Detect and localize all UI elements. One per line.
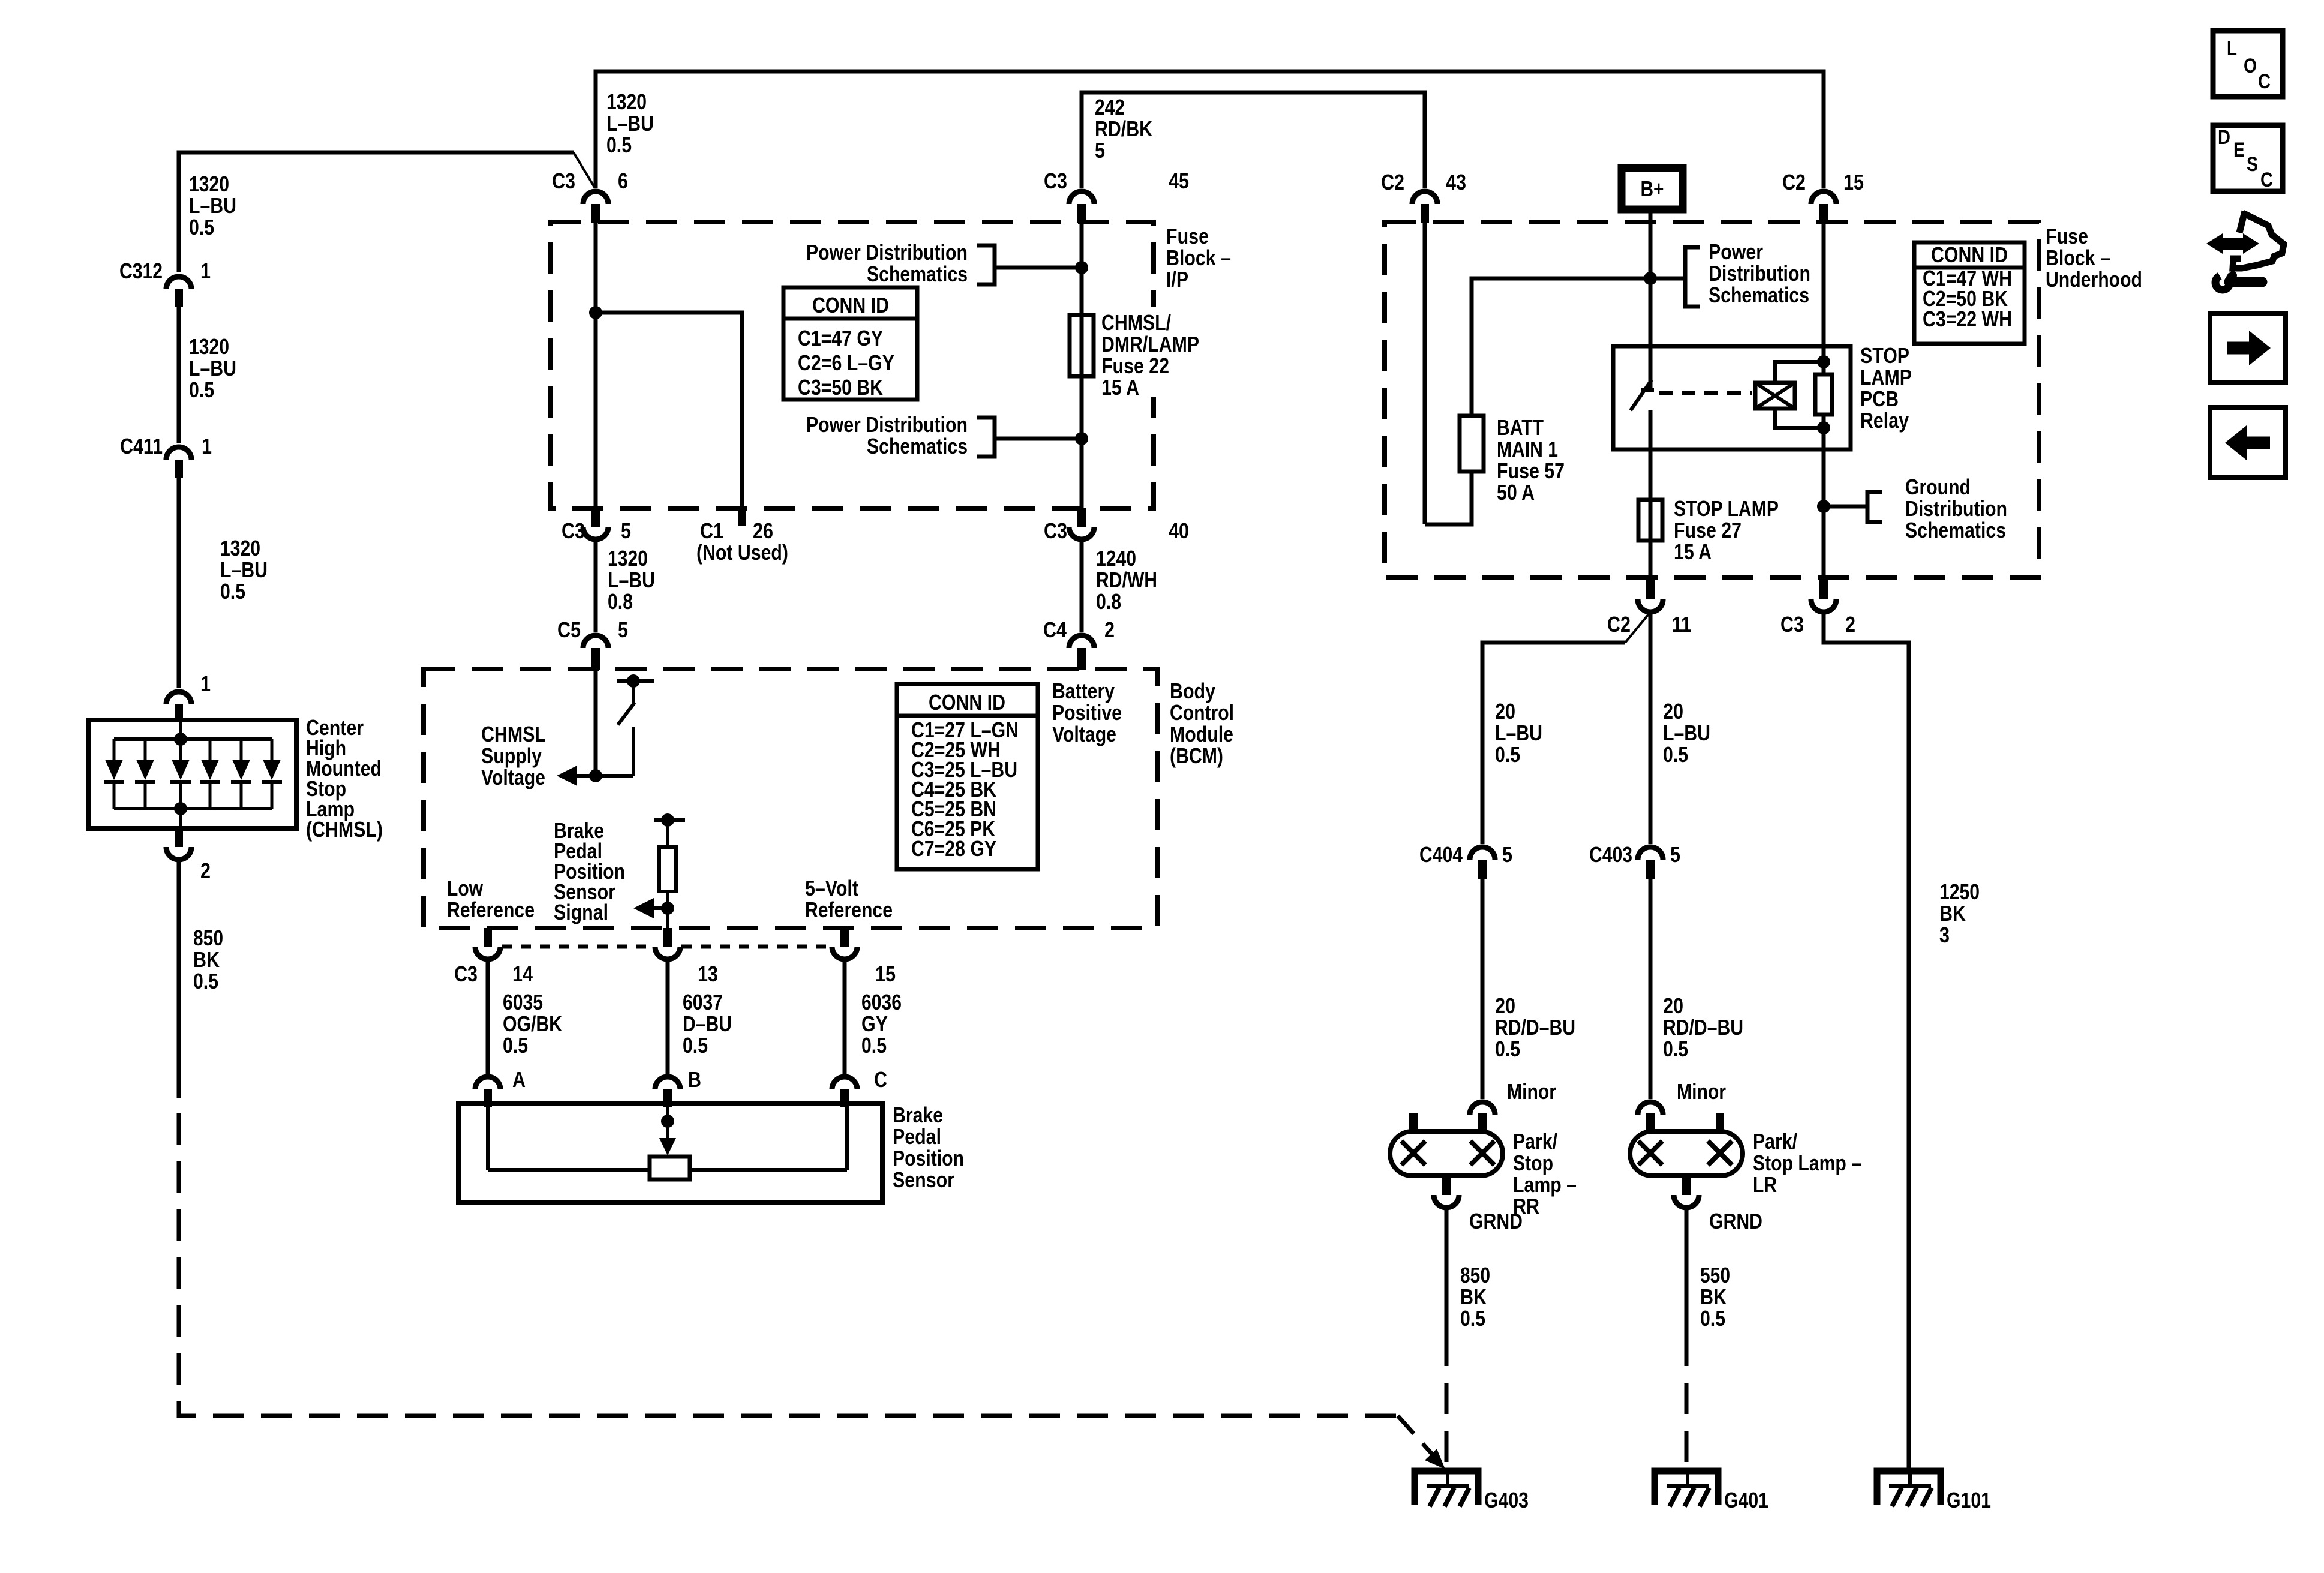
connector C3 pin 2 (Fuse Block Underhood bottom) [1780, 578, 1855, 637]
svg-text:L–BU: L–BU [1495, 721, 1542, 745]
BCM connector ID table [897, 684, 1038, 869]
wire 6037 D-BU 0.5 (sensor signal) [666, 959, 670, 1074]
connector C403 pin 5 [1589, 842, 1680, 879]
svg-text:C404: C404 [1419, 842, 1463, 867]
wire 1320 L-BU 0.8 from C3-5 to BCM C5-5 [594, 539, 598, 632]
svg-text:Distribution: Distribution [1905, 496, 2007, 521]
svg-text:Block –: Block – [2046, 245, 2110, 270]
svg-text:G401: G401 [1724, 1488, 1768, 1512]
relay coil [1755, 362, 1824, 428]
icon back arrow box [2210, 407, 2286, 478]
lamp CHMSL - Center High Mounted Stop Lamp (6 LED diodes) [88, 715, 383, 842]
junction node sensor signal at BCM [661, 902, 674, 915]
svg-text:Sensor: Sensor [893, 1167, 954, 1192]
svg-text:GRND: GRND [1469, 1209, 1523, 1233]
svg-text:GY: GY [861, 1011, 888, 1036]
svg-text:C: C [2258, 70, 2271, 93]
wire inside fuse block I/P from C3-6 to C3-5 [594, 223, 598, 508]
svg-text:C3=22 WH: C3=22 WH [1923, 307, 2012, 331]
wire label 6035 OG/BK 0.5 pin A [503, 990, 562, 1092]
svg-text:GRND: GRND [1709, 1209, 1762, 1233]
svg-text:Fuse: Fuse [1166, 224, 1209, 248]
svg-text:STOP LAMP: STOP LAMP [1674, 496, 1779, 521]
svg-text:C3: C3 [1044, 169, 1067, 193]
svg-text:C3=50 BK: C3=50 BK [798, 375, 883, 400]
svg-text:3: 3 [1939, 923, 1950, 947]
connector CHMSL pin 1 [166, 671, 211, 722]
wire dashed to ground G401 [1685, 1335, 1689, 1469]
ground G101 [1877, 1471, 1991, 1512]
svg-text:Schematics: Schematics [867, 262, 968, 286]
wire label 6037 D-BU 0.5 pin B [683, 990, 732, 1092]
connector GRND terminal (RR lamp) [1434, 1195, 1523, 1233]
svg-text:2: 2 [1845, 612, 1855, 637]
icon forward arrow box [2210, 313, 2286, 383]
svg-text:Minor: Minor [1677, 1079, 1726, 1104]
svg-text:1240: 1240 [1096, 546, 1136, 571]
relay STOP LAMP PCB Relay outline [1613, 346, 1851, 449]
svg-text:Control: Control [1170, 700, 1234, 725]
svg-text:40: 40 [1169, 518, 1189, 543]
wire label 850 BK 0.5 (CHMSL ground wire) [193, 926, 223, 993]
svg-text:Underhood: Underhood [2046, 267, 2142, 292]
svg-text:C1: C1 [700, 518, 723, 543]
switch BCM CHMSL driver (internal contact) [577, 674, 654, 776]
connector C3 pin 15 (BCM 5-volt reference) [832, 928, 896, 986]
svg-text:1: 1 [200, 671, 211, 696]
svg-text:Position: Position [893, 1146, 964, 1170]
svg-text:Brake: Brake [893, 1103, 943, 1127]
label Low Reference (BCM) [447, 876, 535, 922]
off-page reference Power Distribution Schematics (underhood B+) [1650, 239, 1810, 307]
wire 550 BK 0.5 LR lamp ground [1685, 1208, 1689, 1335]
svg-text:2: 2 [200, 858, 211, 883]
svg-text:L–BU: L–BU [1663, 721, 1710, 745]
svg-text:20: 20 [1495, 699, 1515, 724]
svg-text:Minor: Minor [1507, 1079, 1556, 1104]
off-page reference Ground Distribution Schematics [1824, 475, 2007, 542]
svg-text:0.5: 0.5 [1495, 1037, 1520, 1061]
svg-text:Module: Module [1170, 722, 1233, 746]
wire 1320 L-BU top run from C3-6 to fuse block (y=119) [596, 71, 1824, 188]
svg-text:(BCM): (BCM) [1170, 743, 1223, 768]
wire CHMSL supply inside BCM (C5-5 feed) [594, 670, 598, 776]
off-page reference Power Distribution Schematics (upper, fuse 22 feed) [806, 240, 1080, 286]
fuse block I/P dashed outline [550, 222, 1154, 508]
connector C411 pin 1 [120, 434, 212, 478]
svg-text:Voltage: Voltage [481, 765, 545, 789]
svg-text:Schematics: Schematics [1709, 283, 1809, 307]
svg-text:Lamp –: Lamp – [1513, 1172, 1577, 1197]
wire 20 L-BU branch to C404 (RR lamp) [1482, 612, 1650, 844]
svg-text:LAMP: LAMP [1860, 365, 1912, 389]
svg-text:0.5: 0.5 [1663, 742, 1688, 767]
svg-text:0.5: 0.5 [861, 1033, 887, 1058]
wire 1320 L-BU 0.5 C312 to C411 [177, 307, 181, 443]
svg-text:Stop Lamp –: Stop Lamp – [1753, 1151, 1861, 1175]
svg-text:PCB: PCB [1860, 386, 1899, 411]
svg-text:L: L [2227, 37, 2237, 60]
wire label 1320 L-BU 0.5 (segment C3-6 to C312) [189, 172, 236, 239]
svg-text:Park/: Park/ [1753, 1129, 1797, 1154]
svg-text:0.5: 0.5 [220, 579, 245, 604]
resistor BCM brake pedal position sensor signal pull-up [654, 813, 685, 928]
terminal B+ battery positive [1622, 168, 1683, 209]
svg-text:15 A: 15 A [1101, 375, 1139, 400]
svg-text:BK: BK [1700, 1284, 1727, 1309]
junction node fuse 22 lower tap [1075, 432, 1088, 445]
wire label 1320 L-BU 0.5 (segment C411 to CHMSL) [220, 536, 268, 604]
svg-text:OG/BK: OG/BK [503, 1011, 562, 1036]
connector C2 pin 15 (Fuse Block Underhood) [1782, 170, 1864, 223]
svg-text:Distribution: Distribution [1709, 261, 1810, 286]
connector C3 pin 40 (Fuse Block I/P bottom) [1044, 508, 1189, 543]
svg-text:1320: 1320 [220, 536, 260, 560]
label Brake Pedal Position Sensor Signal with arrow [554, 818, 668, 924]
svg-text:(CHMSL): (CHMSL) [306, 817, 383, 842]
connector sensor pin B [655, 1077, 680, 1107]
connector C3 pin 5 (Fuse Block I/P bottom) [562, 508, 631, 543]
svg-text:5: 5 [621, 518, 631, 543]
svg-text:G101: G101 [1947, 1488, 1991, 1512]
wire 1320 L-BU from fuse block C3-6 to C312 (top-left run) [179, 152, 594, 272]
svg-text:BK: BK [1460, 1284, 1487, 1309]
svg-text:1: 1 [200, 259, 211, 283]
wire label 242 RD/BK 5 [1095, 95, 1152, 163]
svg-text:RD/WH: RD/WH [1096, 568, 1157, 592]
wire label 20 L-BU 0.5 (LR) [1663, 699, 1710, 767]
wire relay switch output to fuse 27 [1649, 449, 1653, 578]
wire 20 L-BU to C403 (LR lamp) [1649, 612, 1653, 844]
label STOP LAMP PCB Relay [1860, 343, 1912, 433]
svg-text:C3: C3 [1044, 518, 1067, 543]
svg-text:LR: LR [1753, 1172, 1777, 1197]
icon LOC navigation box [2213, 31, 2283, 97]
svg-text:BATT: BATT [1497, 415, 1544, 440]
svg-text:Stop: Stop [1513, 1151, 1553, 1175]
wire B+ to stop lamp relay switch [1649, 213, 1653, 389]
svg-text:STOP: STOP [1860, 343, 1909, 368]
svg-text:C312: C312 [119, 259, 163, 283]
svg-text:6036: 6036 [861, 990, 902, 1014]
svg-text:Power: Power [1709, 239, 1763, 264]
svg-text:L–BU: L–BU [606, 111, 654, 136]
svg-text:1320: 1320 [606, 89, 647, 114]
wire label 1250 BK 3 [1939, 879, 1980, 947]
svg-text:Supply: Supply [481, 743, 542, 768]
svg-text:1320: 1320 [189, 334, 229, 359]
svg-text:6037: 6037 [683, 990, 723, 1014]
svg-text:1: 1 [202, 434, 212, 458]
svg-text:L–BU: L–BU [608, 568, 655, 592]
svg-text:CHMSL/: CHMSL/ [1101, 310, 1171, 335]
wire label 20 L-BU 0.5 (RR) [1495, 699, 1542, 767]
svg-text:BK: BK [193, 947, 220, 972]
junction node on C3-6 wire to C1-26 branch [589, 306, 602, 319]
wire 1320 L-BU 0.5 C411 to CHMSL [177, 478, 181, 688]
connector Minor terminal (LR lamp) [1638, 1079, 1726, 1115]
module BCM dashed outline [424, 669, 1157, 928]
connector C312 pin 1 [119, 259, 211, 307]
lamp Park/Stop Lamp - LR [1630, 1113, 1861, 1197]
svg-text:0.5: 0.5 [1460, 1306, 1485, 1331]
connector C3 pin 14 (BCM low reference) [454, 928, 533, 986]
svg-text:0.8: 0.8 [1096, 589, 1121, 614]
wire B+ feed to BATT MAIN 1 fuse [1472, 278, 1650, 416]
svg-text:2: 2 [1104, 617, 1115, 642]
junction node B+ distribution [1644, 272, 1657, 285]
svg-text:C: C [874, 1067, 887, 1092]
icon DESC navigation box [2213, 125, 2283, 191]
svg-text:C3: C3 [454, 962, 478, 986]
svg-text:550: 550 [1700, 1263, 1730, 1287]
svg-text:BK: BK [1939, 901, 1966, 926]
svg-text:C403: C403 [1589, 842, 1632, 867]
connector C4 pin 2 (BCM) [1043, 617, 1115, 670]
svg-text:C3: C3 [552, 169, 575, 193]
svg-text:L–BU: L–BU [189, 356, 236, 380]
sensor Brake Pedal Position Sensor (potentiometer) [458, 1103, 964, 1202]
connector C3 pin 45 (Fuse Block I/P) [1044, 169, 1189, 223]
relay switch contact [1631, 380, 1654, 449]
svg-text:DMR/LAMP: DMR/LAMP [1101, 332, 1199, 356]
wire label 1320 L-BU 0.5 (segment C312 to C411) [189, 334, 236, 402]
svg-text:C4: C4 [1043, 617, 1067, 642]
connector CHMSL pin 2 [166, 828, 211, 883]
connector C3 pin 6 (Fuse Block I/P) [552, 169, 628, 223]
junction node relay coil top [1817, 355, 1830, 368]
wire 242 RD/BK from C3-45 down through fuse 22 [1080, 223, 1084, 508]
svg-text:0.5: 0.5 [193, 969, 218, 993]
svg-text:B+: B+ [1641, 176, 1664, 201]
fuse STOP LAMP Fuse 27 15 A [1638, 496, 1779, 564]
wire 1240 RD/WH from C3-40 to BCM C4-2 [1080, 539, 1084, 632]
icon wiring repair wrench [2206, 211, 2284, 290]
connector sensor pin A [475, 1077, 500, 1107]
label Fuse Block - Underhood [2046, 224, 2142, 292]
svg-text:5: 5 [1670, 842, 1680, 867]
lamp Park/Stop Lamp - RR [1390, 1113, 1577, 1218]
wire 20 RD/D-BU 0.5 to RR lamp [1481, 879, 1485, 1099]
svg-text:C2: C2 [1782, 170, 1806, 194]
svg-text:C1=47 GY: C1=47 GY [798, 326, 883, 350]
svg-text:C: C [2260, 169, 2273, 191]
svg-text:Pedal: Pedal [893, 1124, 941, 1149]
fuse block I/P connector ID table [783, 287, 917, 400]
label Fuse Block - I/P [1166, 224, 1231, 292]
fuse block Underhood dashed outline [1385, 222, 2039, 578]
svg-text:5: 5 [618, 617, 628, 642]
label 5-Volt Reference (BCM) [805, 876, 893, 922]
wire 850 BK 0.5 from CHMSL pin 2 [177, 860, 181, 1098]
svg-text:0.5: 0.5 [1700, 1306, 1725, 1331]
wire 1250 BK 3 from C3-2 to ground G101 [1824, 612, 1909, 1471]
svg-text:Park/: Park/ [1513, 1129, 1557, 1154]
label Body Control Module (BCM) [1170, 679, 1234, 768]
svg-text:C2: C2 [1381, 170, 1404, 194]
svg-text:I/P: I/P [1166, 267, 1188, 292]
svg-text:15 A: 15 A [1674, 539, 1712, 564]
ground G403 [1415, 1471, 1529, 1512]
svg-text:Block –: Block – [1166, 245, 1231, 270]
svg-text:D–BU: D–BU [683, 1011, 732, 1036]
svg-text:(Not Used): (Not Used) [696, 540, 788, 565]
fuse BATT MAIN 1 Fuse 57 50 A [1460, 415, 1565, 505]
svg-text:Body: Body [1170, 679, 1215, 703]
svg-text:B: B [688, 1067, 701, 1092]
svg-text:Schematics: Schematics [867, 434, 968, 458]
svg-text:20: 20 [1663, 699, 1683, 724]
svg-text:E: E [2233, 139, 2245, 161]
svg-text:G403: G403 [1484, 1488, 1529, 1512]
svg-text:43: 43 [1446, 170, 1466, 194]
fuse CHMSL/DMR/LAMP Fuse 22 15 A [1070, 307, 1209, 400]
svg-text:5–Volt: 5–Volt [805, 876, 858, 900]
svg-text:20: 20 [1495, 993, 1515, 1018]
wire C2-15 through relay [1822, 223, 1826, 578]
svg-text:D: D [2218, 126, 2230, 149]
relay actuation dashed link [1659, 391, 1752, 395]
svg-text:A: A [512, 1067, 526, 1092]
svg-text:0.8: 0.8 [608, 589, 633, 614]
connector C404 pin 5 [1419, 842, 1512, 879]
svg-text:5: 5 [1502, 842, 1512, 867]
svg-text:O: O [2244, 55, 2257, 77]
connector C2 pin 11 (Fuse Block Underhood bottom) [1607, 578, 1691, 637]
svg-text:15: 15 [875, 962, 896, 986]
label Battery Positive Voltage (BCM C4-2 input) [1052, 679, 1122, 746]
svg-text:Power Distribution: Power Distribution [806, 412, 968, 437]
BCM harness connector dotted line [502, 945, 831, 949]
svg-text:C3: C3 [562, 518, 585, 543]
svg-text:Reference: Reference [805, 897, 893, 922]
wire label 6036 GY 0.5 pin C [861, 990, 902, 1092]
svg-text:13: 13 [698, 962, 718, 986]
junction node ground distribution tap [1817, 500, 1830, 513]
wire 850 BK 0.5 RR lamp ground [1445, 1208, 1449, 1335]
svg-text:C2=6 L–GY: C2=6 L–GY [798, 350, 894, 375]
connector C5 pin 5 (BCM) [557, 617, 628, 670]
wire 850 BK dashed run to ground G403 [179, 1113, 1445, 1469]
svg-text:Signal: Signal [554, 900, 608, 924]
off-page reference Power Distribution Schematics (lower, fuse 22 load side) [806, 412, 1080, 458]
svg-text:15: 15 [1843, 170, 1864, 194]
svg-text:Voltage: Voltage [1052, 722, 1116, 746]
svg-text:0.5: 0.5 [683, 1033, 708, 1058]
connector GRND terminal (LR lamp) [1674, 1195, 1762, 1233]
svg-text:850: 850 [193, 926, 223, 950]
wire label 1320 L-BU 0.8 [608, 546, 655, 614]
wire 6036 GY 0.5 (5-volt reference) [843, 959, 847, 1074]
svg-text:L–BU: L–BU [189, 193, 236, 218]
wire label 20 RD/D-BU 0.5 (LR) [1663, 993, 1743, 1061]
svg-text:850: 850 [1460, 1263, 1490, 1287]
svg-text:0.5: 0.5 [1495, 742, 1520, 767]
svg-text:0.5: 0.5 [503, 1033, 528, 1058]
svg-text:20: 20 [1663, 993, 1683, 1018]
svg-text:Power Distribution: Power Distribution [806, 240, 968, 265]
svg-text:Low: Low [447, 876, 484, 900]
svg-text:S: S [2247, 153, 2258, 176]
svg-text:MAIN 1: MAIN 1 [1497, 437, 1558, 461]
svg-text:Relay: Relay [1860, 408, 1909, 433]
svg-text:0.5: 0.5 [606, 133, 632, 157]
wire dashed to ground G403 [1445, 1335, 1449, 1469]
svg-text:26: 26 [753, 518, 773, 543]
junction node relay coil bottom [1817, 421, 1830, 434]
fuse block Underhood connector ID table [1914, 242, 2025, 344]
wire label 1240 RD/WH 0.8 [1096, 546, 1157, 614]
wire branch to C1 pin 26 (not used) [596, 313, 742, 508]
svg-text:6: 6 [618, 169, 628, 193]
svg-text:Schematics: Schematics [1905, 518, 2006, 542]
svg-text:Positive: Positive [1052, 700, 1122, 725]
svg-text:11: 11 [1672, 612, 1691, 637]
wire 20 RD/D-BU 0.5 to LR lamp [1649, 879, 1653, 1099]
junction node CHMSL supply at BCM output [589, 769, 602, 782]
svg-text:RD/D–BU: RD/D–BU [1663, 1015, 1743, 1040]
svg-text:0.5: 0.5 [189, 377, 214, 402]
svg-text:Ground: Ground [1905, 475, 1971, 499]
connector sensor pin C [832, 1077, 857, 1107]
svg-text:5: 5 [1095, 138, 1105, 163]
wire label 850 BK 0.5 (RR ground) [1460, 1263, 1490, 1331]
svg-text:CONN ID: CONN ID [929, 690, 1005, 715]
svg-text:C3: C3 [1780, 612, 1804, 637]
connector C1 pin 26 stub (Not Used) [696, 508, 788, 565]
connector C3 pin 13 (BCM sensor signal) [655, 928, 718, 986]
connector Minor terminal (RR lamp) [1470, 1079, 1556, 1115]
svg-text:CONN ID: CONN ID [812, 293, 889, 317]
wire label 20 RD/D-BU 0.5 (RR) [1495, 993, 1575, 1061]
svg-text:Reference: Reference [447, 897, 535, 922]
svg-text:0.5: 0.5 [189, 215, 214, 239]
svg-text:C5: C5 [557, 617, 581, 642]
wire label 1320 L-BU 0.5 (top, at fuse block C3-6) [606, 89, 654, 157]
wire BATT MAIN 1 fuse to C2-43 [1425, 223, 1472, 524]
svg-text:0.5: 0.5 [1663, 1037, 1688, 1061]
svg-text:CHMSL: CHMSL [481, 722, 546, 746]
svg-text:1320: 1320 [608, 546, 648, 571]
svg-text:14: 14 [512, 962, 533, 986]
wire label 550 BK 0.5 (LR ground) [1700, 1263, 1730, 1331]
svg-text:L–BU: L–BU [220, 557, 268, 582]
svg-text:Fuse 27: Fuse 27 [1674, 518, 1742, 542]
svg-text:CONN ID: CONN ID [1931, 242, 2008, 267]
svg-text:RD/BK: RD/BK [1095, 116, 1152, 141]
svg-text:C411: C411 [120, 434, 163, 458]
svg-text:Fuse 57: Fuse 57 [1497, 458, 1565, 483]
wire 6035 OG/BK 0.5 (low reference) [486, 959, 490, 1074]
svg-text:45: 45 [1169, 169, 1189, 193]
svg-text:1250: 1250 [1939, 879, 1980, 904]
svg-text:C2: C2 [1607, 612, 1631, 637]
svg-text:50 A: 50 A [1497, 480, 1535, 505]
label CHMSL Supply Voltage with arrow [481, 722, 577, 789]
relay resistor [1815, 374, 1832, 415]
junction node fuse 22 upper tap [1075, 261, 1088, 274]
wire 242 RD/BK top run from C3-45 to C2-43 (y=154) [1082, 92, 1425, 188]
svg-text:Fuse: Fuse [2046, 224, 2088, 248]
svg-text:1320: 1320 [189, 172, 229, 196]
svg-text:RD/D–BU: RD/D–BU [1495, 1015, 1575, 1040]
connector C2 pin 43 (Fuse Block Underhood) [1381, 170, 1466, 223]
svg-text:Battery: Battery [1052, 679, 1115, 703]
svg-text:6035: 6035 [503, 990, 543, 1014]
svg-text:242: 242 [1095, 95, 1125, 119]
ground G401 [1655, 1471, 1768, 1512]
svg-text:Fuse 22: Fuse 22 [1101, 353, 1169, 378]
